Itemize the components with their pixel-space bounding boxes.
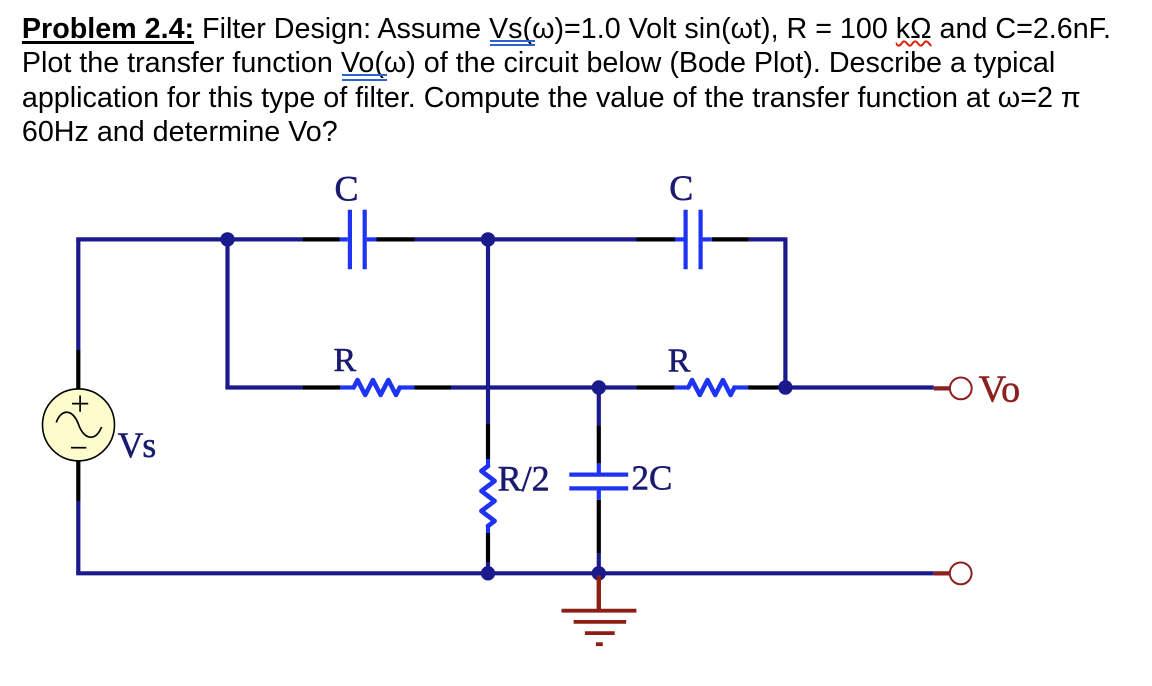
pin: capacitor 2C bottom lead (597, 500, 601, 553)
svg-text:Vo: Vo (979, 368, 1021, 410)
wire: top horizontal middle segment (415, 237, 637, 241)
svg-text:Vs: Vs (118, 425, 156, 465)
wire: 2C bottom to bottom rail (597, 553, 601, 573)
ground bar 1 (562, 609, 637, 613)
junction node dot bottom (R/2) (481, 566, 495, 580)
capacitor 2C body (vertical) (569, 463, 628, 499)
ground bar 2 (574, 620, 627, 624)
svg-text:R: R (334, 342, 357, 379)
svg-text:C: C (335, 169, 359, 209)
wire: middle node to 2C top (597, 388, 601, 426)
ground bar 4 (596, 642, 603, 646)
wire: middle horizontal left segment (225, 385, 302, 389)
wire: middle horizontal right segment to output (780, 385, 934, 389)
output terminal circle bottom (950, 563, 972, 585)
resistor R2 body (zigzag) (675, 380, 748, 395)
junction node dot top-center (481, 232, 495, 246)
voltage source sine wave (56, 412, 101, 437)
voltage source minus sign (71, 447, 86, 449)
junction node dot bottom (2C/ground) (592, 566, 606, 580)
pin: resistor R1 right lead (415, 385, 452, 389)
wire: left rail top (source to top wire) (76, 239, 80, 350)
capacitor C1 body (340, 210, 377, 269)
ground bar 3 (585, 631, 615, 635)
wire: bottom horizontal rail (76, 571, 934, 575)
pin: source top lead (76, 350, 80, 389)
wire: vertical top node to R/2 (486, 239, 490, 423)
pin: capacitor C2 left lead (637, 237, 676, 241)
wire: top horizontal right segment with corner down to middle wire (749, 239, 786, 387)
junction node dot top-left (220, 232, 234, 246)
voltage source Vs circle (43, 389, 115, 461)
wire: vertical from top node A down to middle wire (225, 239, 229, 387)
resistor R1 body (zigzag) (340, 380, 415, 395)
output stub red (bottom) (934, 571, 950, 575)
pin: resistor R2 right lead (748, 385, 780, 389)
problem statement text (22, 12, 1111, 149)
resistor R/2 body (vertical zigzag) (481, 459, 494, 533)
pin: capacitor 2C top lead (597, 425, 601, 463)
pin: capacitor C1 left lead (302, 237, 339, 241)
pin: source bottom lead (76, 460, 80, 501)
pin: resistor R/2 bottom lead (486, 533, 490, 562)
svg-text:2C: 2C (632, 458, 673, 497)
capacitor C2 body (675, 210, 712, 269)
junction node dot middle (2C top) (592, 380, 606, 394)
pin: resistor R1 left lead (302, 385, 340, 389)
pin: resistor R/2 top lead (486, 424, 490, 459)
wire: left rail bottom from source (76, 501, 80, 573)
wire: top horizontal left segment (76, 237, 302, 241)
voltage source plus sign (72, 396, 88, 412)
wire: R/2 bottom to bottom rail (486, 562, 490, 573)
pin: capacitor C2 right lead (712, 237, 749, 241)
pin: capacitor C1 right lead (377, 237, 415, 241)
output stub red (middle) (934, 386, 950, 390)
ground stem (597, 576, 601, 611)
svg-text:R: R (668, 343, 691, 380)
output terminal circle Vo (950, 378, 972, 400)
svg-text:C: C (669, 168, 693, 208)
wire: middle horizontal center segment (451, 385, 636, 389)
junction node dot middle-right (778, 380, 792, 394)
pin: resistor R2 left lead (636, 385, 674, 389)
svg-text:R/2: R/2 (498, 458, 550, 498)
